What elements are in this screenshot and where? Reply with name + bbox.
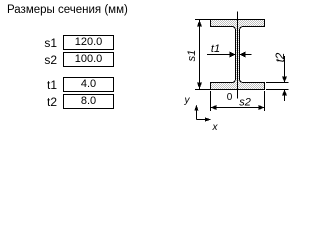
svg-text:0: 0 [227,92,233,103]
svg-text:s1: s1 [186,50,198,62]
svg-text:t2: t2 [275,52,287,62]
svg-text:s2: s2 [239,97,251,109]
svg-text:y: y [184,95,191,106]
svg-text:x: x [212,122,219,133]
svg-text:t1: t1 [211,43,220,55]
